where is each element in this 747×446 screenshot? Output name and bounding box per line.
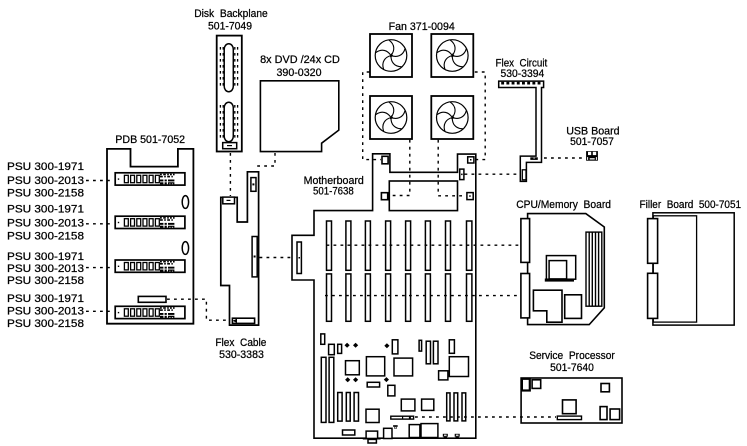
fan plenum area bbox=[389, 181, 457, 211]
flex cable top connector bbox=[223, 197, 235, 204]
flex cable DVD connector bbox=[251, 178, 256, 192]
Flex Cable 530-3383 bbox=[221, 172, 259, 325]
svg-text:530-3383: 530-3383 bbox=[219, 349, 264, 361]
svg-text:PSU 300-1971: PSU 300-1971 bbox=[7, 293, 84, 305]
Motherboard 501-7638 bbox=[292, 154, 476, 438]
svg-text:501-7638: 501-7638 bbox=[313, 186, 354, 198]
svg-text:PSU 300-2158: PSU 300-2158 bbox=[7, 231, 84, 243]
disk connector slot 1 bbox=[224, 44, 233, 92]
filler board edge connector 2 bbox=[648, 273, 658, 318]
PSU part-number labels bbox=[7, 161, 84, 330]
Service Processor 501-7640 bbox=[521, 378, 622, 423]
svg-text:CPU/Memory Board: CPU/Memory Board bbox=[516, 199, 611, 211]
wire: DVD to flex cable bbox=[255, 153, 275, 166]
CPU board edge connector 2 bbox=[521, 274, 530, 318]
flex cable bottom connector bbox=[232, 318, 254, 323]
svg-text:PSU 300-2158: PSU 300-2158 bbox=[7, 275, 84, 287]
svg-text:Disk Backplane: Disk Backplane bbox=[194, 8, 268, 20]
svg-text:PSU 300-1971: PSU 300-1971 bbox=[7, 204, 84, 216]
PSU connector J2 bbox=[115, 216, 185, 228]
CPU/Memory Board bbox=[521, 214, 604, 325]
fan 1 connector bbox=[382, 156, 388, 164]
flex circuit connector bbox=[460, 169, 464, 180]
svg-text:530-3394: 530-3394 bbox=[501, 68, 545, 80]
PSU connector J1 bbox=[115, 173, 185, 185]
fan 2 bbox=[431, 34, 473, 77]
fan 4 bbox=[431, 96, 473, 139]
backplane bottom connector bbox=[223, 143, 237, 149]
USB Board 501-7057 bbox=[586, 151, 598, 161]
PDB mounting hole 1 bbox=[182, 196, 188, 209]
svg-text:8x DVD /24x CD: 8x DVD /24x CD bbox=[260, 54, 340, 66]
flex cable motherboard connector bbox=[252, 237, 257, 277]
svg-text:PSU 300-2013: PSU 300-2013 bbox=[7, 263, 84, 275]
svg-text:Fan 371-0094: Fan 371-0094 bbox=[389, 21, 455, 33]
filler board edge connector 1 bbox=[648, 219, 658, 264]
fan 2 connector bbox=[468, 157, 474, 163]
svg-text:Service Processor: Service Processor bbox=[529, 350, 615, 362]
motherboard small components bbox=[321, 334, 469, 443]
svg-text:390-0320: 390-0320 bbox=[277, 67, 322, 79]
Disk Backplane 501-7049 bbox=[217, 36, 242, 152]
wire: DIMM row 2 to CPU board bbox=[325, 295, 521, 297]
DIMM slots bbox=[327, 221, 472, 321]
CPU board component U1 bbox=[533, 290, 562, 322]
CPU socket bbox=[546, 256, 575, 280]
wire: flex circuit to USB board bbox=[544, 157, 585, 159]
svg-text:PSU 300-2158: PSU 300-2158 bbox=[7, 318, 84, 330]
svg-text:PSU 300-2013: PSU 300-2013 bbox=[7, 306, 84, 318]
fan 3 connector bbox=[381, 193, 387, 200]
wire: DIMM row 1 to CPU board bbox=[327, 244, 521, 246]
flex cable connector on motherboard bbox=[297, 242, 301, 274]
backplane outline bbox=[217, 36, 242, 152]
svg-text:PSU 300-2013: PSU 300-2013 bbox=[7, 175, 84, 187]
diamond markers bbox=[345, 343, 390, 383]
PSU connector J4 bbox=[115, 306, 185, 318]
Filler Board 500-7051 bbox=[648, 213, 735, 325]
svg-text:PSU 300-1971: PSU 300-1971 bbox=[7, 251, 84, 263]
CPU board edge connector 1 bbox=[521, 219, 530, 263]
Flex Circuit 530-3394 bbox=[499, 81, 544, 181]
bottom edge connectors bbox=[443, 434, 460, 438]
CPU board component U2 bbox=[565, 295, 582, 319]
DVD drive 390-0320 bbox=[260, 81, 338, 152]
svg-text:PDB 501-7052: PDB 501-7052 bbox=[115, 134, 185, 146]
flex circuit foot connector bbox=[522, 170, 526, 180]
Fans 371-0094 bbox=[370, 34, 473, 139]
svg-text:Filler Board 500-7051: Filler Board 500-7051 bbox=[640, 199, 742, 211]
svg-text:501-7057: 501-7057 bbox=[570, 136, 614, 148]
svg-text:501-7049: 501-7049 bbox=[208, 21, 252, 33]
svg-text:501-7640: 501-7640 bbox=[550, 362, 594, 374]
PDB mounting hole 2 bbox=[182, 242, 188, 255]
PDB board 501-7052 outline bbox=[107, 149, 193, 324]
component name labels bbox=[115, 8, 741, 374]
wire: PDB output to flex cable bbox=[167, 299, 229, 320]
disk connector slot 2 bbox=[224, 102, 233, 141]
svg-text:PSU 300-2158: PSU 300-2158 bbox=[7, 188, 84, 200]
PDB output connector bbox=[138, 296, 166, 302]
svg-text:PSU 300-2013: PSU 300-2013 bbox=[7, 218, 84, 230]
wire: flex cable to motherboard left connector bbox=[260, 257, 294, 259]
wire: backplane to flex cable bbox=[229, 153, 231, 196]
wires: PSU labels to PDB connectors bbox=[86, 181, 114, 312]
serial header and jumper bbox=[363, 416, 414, 440]
wire: motherboard to service processor bbox=[415, 416, 556, 418]
PSU connector J3 bbox=[115, 260, 185, 272]
svg-text:Flex Cable: Flex Cable bbox=[215, 337, 266, 349]
fan 3 bbox=[370, 96, 412, 139]
svg-text:PSU 300-1971: PSU 300-1971 bbox=[7, 161, 84, 173]
fan 1 bbox=[370, 34, 412, 77]
long wires to CPU board bbox=[325, 245, 521, 295]
fan 4 connector bbox=[467, 193, 473, 200]
wires: fans to motherboard connectors bbox=[363, 72, 486, 196]
wire: motherboard to flex circuit foot bbox=[465, 173, 520, 175]
flex circuit USB connector bbox=[530, 157, 538, 160]
